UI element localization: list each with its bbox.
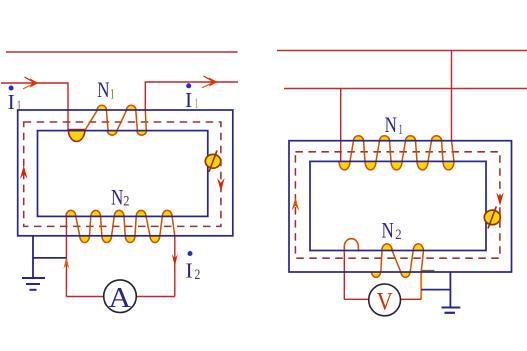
svg-text:2: 2 <box>194 267 200 283</box>
core outer (left transformer) <box>18 110 233 236</box>
wire: primary tap left (right diagram) <box>340 89 342 162</box>
svg-text:1: 1 <box>398 122 403 138</box>
flux arrow down (right core, right limb) <box>496 192 504 206</box>
wire: primary lead right <box>145 82 238 110</box>
wire: primary tap right (right diagram) <box>451 51 453 143</box>
svg-text:N: N <box>382 217 394 242</box>
voltmeter V <box>369 284 401 316</box>
label N2 (right) <box>382 217 402 243</box>
current arrow up (secondary left) <box>63 257 69 270</box>
svg-text:N: N <box>111 184 123 209</box>
ammeter connecting wire (bottom) <box>66 296 174 298</box>
svg-text:I: I <box>186 258 193 282</box>
node dot I1 right <box>186 83 191 88</box>
node dot I1 left <box>9 86 14 91</box>
winding N2 (left, secondary) <box>66 210 175 242</box>
winding N1 (right, primary) <box>339 136 454 170</box>
svg-text:N: N <box>385 112 397 137</box>
ammeter A <box>104 280 137 314</box>
label I2 <box>186 258 201 283</box>
flux arrow up (right core, left limb) <box>292 197 300 211</box>
svg-text:N: N <box>97 77 109 102</box>
core inner window (left transformer) <box>38 131 208 217</box>
ground lead (right) <box>421 272 450 308</box>
svg-text:I: I <box>185 88 192 112</box>
flux arrow down (left core, right limb) <box>217 178 225 192</box>
svg-text:V: V <box>377 287 394 316</box>
flux path dashed (right core) <box>295 152 500 258</box>
power bus line (left diagram) <box>6 51 238 53</box>
power bus line 1 (right diagram) <box>277 50 527 52</box>
flux path dashed (left core) <box>24 122 221 226</box>
label I1 right <box>185 88 199 112</box>
label N2 (left) <box>111 184 129 209</box>
winding N1 (left, primary) <box>68 105 146 141</box>
wire: secondary right lead (orange, to voltmeter) <box>420 272 422 300</box>
flux phi symbol (right core) <box>484 207 500 229</box>
winding N2 (right, secondary) <box>344 239 434 278</box>
voltmeter connecting wire <box>344 298 421 300</box>
wire: secondary left lead (to voltmeter) <box>343 252 345 299</box>
current arrow I1 left <box>23 77 39 89</box>
label N1 (left) <box>97 77 114 103</box>
ground lead (left) <box>33 236 66 278</box>
ground symbol (right) <box>442 308 461 313</box>
current arrow I1 right <box>202 76 218 88</box>
label N1 (right) <box>385 112 403 138</box>
flux arrow up (left core, left limb) <box>20 166 28 180</box>
node dot I2 <box>188 251 193 256</box>
power bus line 2 (right diagram) <box>284 88 527 90</box>
core inner window (right transformer) <box>310 161 486 250</box>
label I1 left <box>8 90 22 114</box>
svg-text:A: A <box>109 282 132 314</box>
ground symbol (left) <box>22 278 45 290</box>
core outer (right transformer) <box>289 141 512 272</box>
flux phi symbol (left core) <box>205 151 220 172</box>
wire: secondary right lead (to ammeter) <box>174 236 176 297</box>
svg-text:2: 2 <box>395 227 401 243</box>
svg-text:2: 2 <box>123 193 129 209</box>
svg-text:I: I <box>8 90 15 114</box>
current arrow down (secondary right) <box>172 254 178 267</box>
wire: primary lead left <box>1 83 68 130</box>
wire: secondary left lead (to ammeter) <box>65 213 67 297</box>
svg-text:1: 1 <box>110 86 115 102</box>
